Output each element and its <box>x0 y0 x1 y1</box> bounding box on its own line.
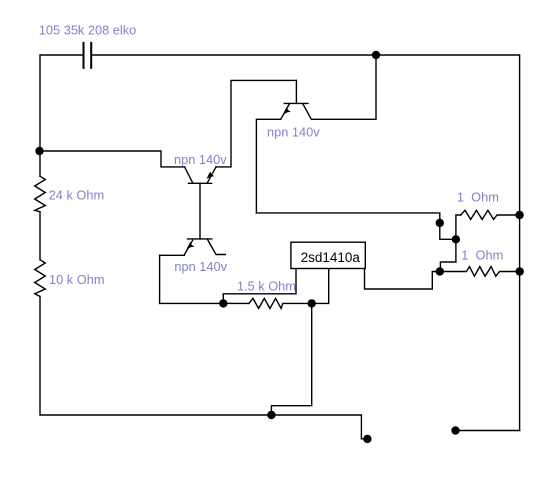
svg-text:npn 140v: npn 140v <box>174 259 227 274</box>
resistor R5 1.5 k Ohm zigzag <box>249 298 329 308</box>
wire node A to middle transistor base-left <box>40 151 185 167</box>
transistor Q1 bar <box>188 182 211 184</box>
junction dot R3 right rail <box>515 211 523 219</box>
wire Q2 collector to top rail junction <box>311 55 376 119</box>
svg-text:1.5 k Ohm: 1.5 k Ohm <box>237 279 296 294</box>
junction dot node A left rail <box>35 147 43 155</box>
transistor Q3 right diagonal stub <box>208 240 226 255</box>
transistor Q3 npn bottom: left leg horizontal <box>160 254 185 256</box>
svg-text:10 k Ohm: 10 k Ohm <box>49 272 104 287</box>
arrow Q2 emitter <box>283 107 291 114</box>
svg-text:24 k Ohm: 24 k Ohm <box>49 187 104 202</box>
wire Q2 emitter left and down <box>256 119 280 213</box>
wire D4 down and left step to bottom rail <box>271 303 311 415</box>
wire top rail right of capacitor <box>92 55 520 431</box>
resistor R4 1 Ohm zigzag <box>440 267 520 277</box>
transistor Q3 left diagonal emitter <box>184 240 192 255</box>
junction dot 1.5k right <box>308 299 316 307</box>
transistor Q2 left diagonal emitter <box>281 104 290 119</box>
transistor Q2 right diagonal collector <box>303 104 312 119</box>
svg-text:105 35k 208 elko: 105 35k 208 elko <box>39 23 136 38</box>
junction dot 1.5k left <box>219 299 227 307</box>
wire Z-step down to resistor R4 node <box>440 239 456 271</box>
svg-text:npn 140v: npn 140v <box>174 152 227 167</box>
transistor Q1 npn middle: left diagonal <box>185 167 193 183</box>
wire left rail between resistors <box>39 212 41 260</box>
junction dot R4 right rail <box>516 267 524 275</box>
wire left rail lower <box>40 296 366 438</box>
wire Q3 left leg down to 1.5k row <box>159 255 161 303</box>
box U1 2sd1410a outline <box>291 242 365 268</box>
wire top rail left of capacitor <box>40 55 83 176</box>
junction dot top rail <box>372 51 380 59</box>
arrow Q3 emitter <box>187 242 195 249</box>
junction dot right vertical <box>436 219 444 227</box>
wire 1.5k row <box>160 302 249 304</box>
svg-text:2sd1410a: 2sd1410a <box>301 250 361 265</box>
junction dot R3 left node <box>452 235 460 243</box>
resistor R3 1 Ohm zigzag <box>461 210 520 219</box>
box U1 left lead <box>223 269 296 304</box>
resistor R2 10 k Ohm zigzag <box>35 260 46 297</box>
box U1 middle lead <box>328 269 330 304</box>
svg-text:1 Ohm: 1 Ohm <box>457 190 499 205</box>
wire bottom right terminal <box>456 430 520 432</box>
terminal dot bottom stub <box>363 435 371 443</box>
transistor Q1 right diagonal emitter <box>207 167 216 183</box>
transistor Q2 npn top: base lead <box>295 80 297 103</box>
svg-text:1 Ohm: 1 Ohm <box>461 248 503 263</box>
transistor Q2 bar <box>284 102 308 104</box>
wire long horizontal to right side <box>256 213 456 239</box>
transistor Q3 bar <box>188 238 212 240</box>
junction dot bottom rail <box>267 411 275 419</box>
junction dot R4 left node <box>436 267 444 275</box>
arrow Q1 emitter <box>206 172 214 179</box>
capacitor C1 plates <box>84 43 92 68</box>
wire up to resistor R3 1 Ohm <box>456 215 461 239</box>
wire R4 node to box right lead <box>365 269 440 290</box>
wire Q1 emitter to top horizontal <box>216 80 296 166</box>
svg-text:npn 140v: npn 140v <box>267 124 320 139</box>
terminal dot bottom right <box>451 426 459 434</box>
resistor R1 24 k Ohm zigzag <box>35 176 46 212</box>
transistor Q1 base lead down <box>199 183 201 239</box>
